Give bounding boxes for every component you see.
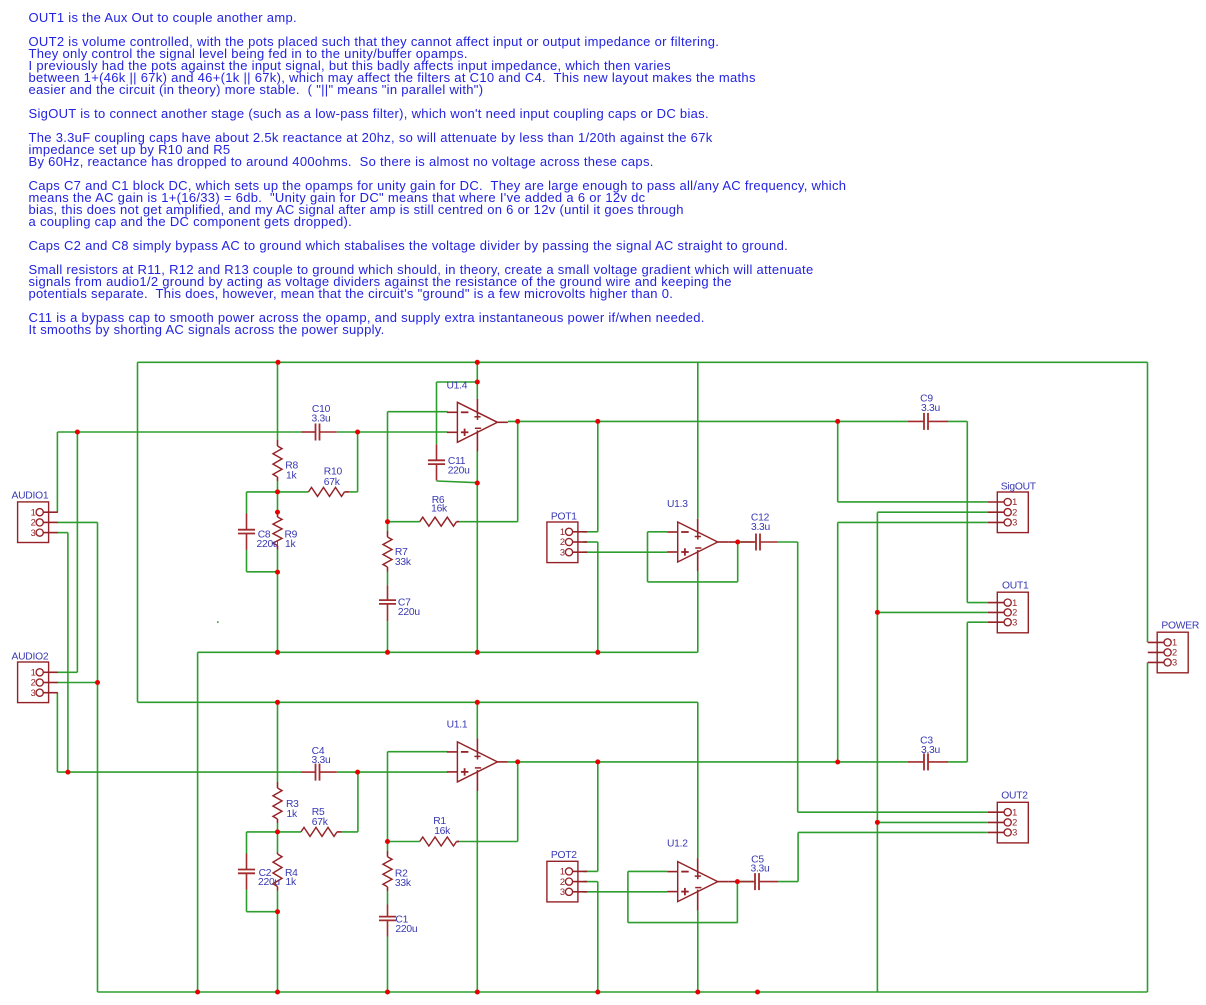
svg-text:3.3u: 3.3u — [921, 745, 941, 756]
svg-text:3: 3 — [31, 528, 36, 538]
svg-text:1k: 1k — [285, 539, 296, 550]
svg-text:1: 1 — [1012, 807, 1017, 817]
svg-text:2: 2 — [31, 678, 36, 688]
svg-text:3: 3 — [560, 887, 565, 897]
svg-text:220u: 220u — [395, 924, 417, 935]
svg-text:3: 3 — [560, 547, 565, 557]
svg-text:67k: 67k — [312, 817, 329, 828]
svg-text:AUDIO1: AUDIO1 — [12, 491, 49, 502]
svg-text:67k: 67k — [324, 477, 341, 488]
svg-text:OUT1: OUT1 — [1002, 581, 1029, 592]
svg-text:16k: 16k — [434, 826, 451, 837]
svg-text:33k: 33k — [395, 557, 412, 568]
svg-text:POT2: POT2 — [551, 850, 577, 861]
svg-text:33k: 33k — [395, 878, 412, 889]
svg-text:1: 1 — [1172, 638, 1177, 648]
svg-text:3: 3 — [1012, 828, 1017, 838]
svg-text:POWER: POWER — [1161, 620, 1199, 631]
svg-text:3.3u: 3.3u — [751, 522, 771, 533]
svg-text:3.3u: 3.3u — [750, 864, 770, 875]
svg-text:potentials separate. This doe: potentials separate. This does, however,… — [29, 286, 674, 301]
svg-text:1k: 1k — [287, 809, 298, 820]
svg-text:R5: R5 — [312, 807, 325, 818]
svg-text:3: 3 — [31, 688, 36, 698]
svg-text:1: 1 — [31, 507, 36, 517]
svg-text:a coupling cap and the DC comp: a coupling cap and the DC component gets… — [29, 214, 353, 229]
svg-text:SigOUT: SigOUT — [1001, 481, 1037, 492]
svg-text:POT1: POT1 — [551, 512, 577, 523]
svg-text:220u: 220u — [448, 466, 470, 477]
svg-text:Caps C2 and C8 simply bypass A: Caps C2 and C8 simply bypass AC to groun… — [29, 238, 789, 253]
svg-text:SigOUT is to connect another s: SigOUT is to connect another stage (such… — [29, 106, 709, 121]
svg-text:U1.3: U1.3 — [667, 499, 688, 510]
svg-text:2: 2 — [1012, 507, 1017, 517]
svg-text:1: 1 — [560, 867, 565, 877]
svg-text:220u: 220u — [398, 607, 420, 618]
svg-text:By 60Hz, reactance has dropped: By 60Hz, reactance has dropped to around… — [29, 154, 654, 169]
svg-text:It smooths by shorting AC sign: It smooths by shorting AC signals across… — [29, 322, 385, 337]
svg-text:AUDIO2: AUDIO2 — [12, 651, 49, 662]
svg-text:2: 2 — [31, 518, 36, 528]
svg-text:3.3u: 3.3u — [311, 755, 331, 766]
svg-text:U1.2: U1.2 — [667, 838, 688, 849]
svg-text:1: 1 — [1012, 598, 1017, 608]
svg-text:1: 1 — [560, 527, 565, 537]
svg-text:1k: 1k — [286, 470, 297, 481]
svg-text:16k: 16k — [431, 504, 448, 515]
svg-text:3: 3 — [1012, 518, 1017, 528]
svg-text:3: 3 — [1012, 617, 1017, 627]
svg-text:2: 2 — [560, 537, 565, 547]
svg-text:2: 2 — [1012, 608, 1017, 618]
svg-text:220u: 220u — [257, 539, 279, 550]
svg-text:U1.1: U1.1 — [447, 720, 468, 731]
svg-text:U1.4: U1.4 — [447, 380, 468, 391]
svg-text:1: 1 — [1012, 497, 1017, 507]
svg-text:2: 2 — [1172, 648, 1177, 658]
svg-text:OUT2: OUT2 — [1001, 791, 1028, 802]
svg-text:220u: 220u — [258, 877, 280, 888]
svg-text:OUT1 is the Aux Out to couple: OUT1 is the Aux Out to couple another am… — [29, 10, 297, 25]
svg-text:easier and the circuit (in the: easier and the circuit (in theory) more … — [29, 82, 484, 97]
svg-text:2: 2 — [560, 877, 565, 887]
svg-text:1: 1 — [31, 668, 36, 678]
svg-text:3.3u: 3.3u — [311, 414, 331, 425]
svg-text:2: 2 — [1012, 818, 1017, 828]
svg-text:3: 3 — [1172, 658, 1177, 668]
svg-text:1k: 1k — [286, 877, 297, 888]
svg-text:3.3u: 3.3u — [921, 403, 941, 414]
